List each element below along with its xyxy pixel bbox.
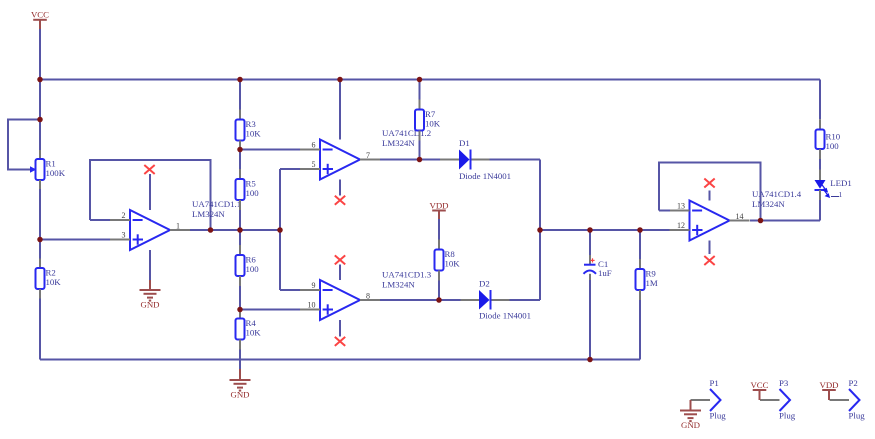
svg-text:GND: GND [230, 390, 249, 400]
svg-text:D2: D2 [479, 279, 490, 289]
svg-text:UA741CD1.4: UA741CD1.4 [752, 189, 802, 199]
svg-text:UA741CD1.1: UA741CD1.1 [192, 199, 241, 209]
svg-text:LM324N: LM324N [752, 199, 785, 209]
svg-text:10K: 10K [445, 259, 461, 269]
svg-text:10K: 10K [246, 129, 262, 139]
svg-text:1: 1 [839, 190, 843, 199]
svg-text:R4: R4 [246, 318, 257, 328]
svg-text:6: 6 [312, 141, 316, 150]
svg-text:100: 100 [826, 141, 840, 151]
svg-text:12: 12 [677, 221, 685, 230]
svg-text:10: 10 [308, 301, 316, 310]
svg-text:R1: R1 [46, 159, 56, 169]
svg-text:LM324N: LM324N [382, 138, 415, 148]
svg-text:3: 3 [122, 231, 126, 240]
svg-text:10K: 10K [46, 277, 62, 287]
svg-text:R6: R6 [246, 255, 257, 265]
svg-text:VCC: VCC [31, 10, 49, 20]
svg-text:LED1: LED1 [830, 178, 852, 188]
svg-text:Plug: Plug [849, 410, 866, 420]
svg-text:R3: R3 [246, 119, 257, 129]
svg-text:VDD: VDD [819, 380, 838, 390]
svg-text:R5: R5 [246, 179, 257, 189]
svg-text:1uF: 1uF [598, 268, 612, 278]
svg-text:UA741CD1.3: UA741CD1.3 [382, 270, 432, 280]
svg-text:VDD: VDD [429, 200, 448, 210]
svg-text:14: 14 [736, 212, 744, 221]
svg-text:Diode 1N4001: Diode 1N4001 [479, 311, 531, 321]
svg-text:9: 9 [312, 281, 316, 290]
svg-text:8: 8 [366, 292, 370, 301]
svg-text:LM324N: LM324N [382, 280, 415, 290]
svg-text:R10: R10 [826, 132, 841, 142]
svg-text:1M: 1M [646, 278, 658, 288]
svg-text:R7: R7 [425, 109, 436, 119]
svg-text:GND: GND [140, 300, 159, 310]
svg-text:10K: 10K [425, 119, 441, 129]
svg-text:10K: 10K [246, 328, 262, 338]
svg-text:LM324N: LM324N [192, 209, 225, 219]
svg-text:P3: P3 [779, 378, 789, 388]
svg-text:P1: P1 [710, 378, 719, 388]
svg-text:Diode 1N4001: Diode 1N4001 [459, 171, 511, 181]
svg-text:1: 1 [176, 222, 180, 231]
svg-text:7: 7 [366, 151, 370, 160]
svg-text:P2: P2 [849, 378, 858, 388]
svg-text:100: 100 [246, 188, 260, 198]
svg-text:100: 100 [246, 264, 260, 274]
svg-text:13: 13 [677, 202, 685, 211]
svg-text:Plug: Plug [779, 410, 796, 420]
svg-text:R9: R9 [646, 269, 657, 279]
svg-text:2: 2 [122, 211, 126, 220]
svg-text:Plug: Plug [710, 410, 727, 420]
svg-text:D1: D1 [459, 138, 470, 148]
svg-text:R8: R8 [445, 249, 456, 259]
svg-text:GND: GND [681, 420, 700, 430]
svg-text:100K: 100K [46, 168, 66, 178]
svg-text:R2: R2 [46, 268, 56, 278]
svg-text:VCC: VCC [750, 380, 768, 390]
svg-text:5: 5 [312, 160, 316, 169]
